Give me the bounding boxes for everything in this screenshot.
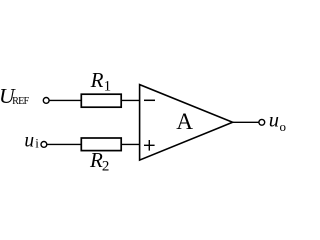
svg-text:REF: REF (12, 96, 29, 107)
node u_i label (24, 131, 39, 152)
node U_REF label (0, 84, 30, 108)
wire op-amp output to u_o terminal (233, 121, 259, 123)
wire u_i terminal to R2 (47, 143, 82, 145)
wire U_REF terminal to R1 (49, 99, 81, 101)
terminal circle u_o (259, 119, 265, 125)
node u_o label (269, 110, 286, 135)
svg-text:R: R (90, 68, 104, 92)
label R1 (90, 68, 112, 95)
label R2 (89, 148, 109, 175)
svg-text:o: o (280, 119, 287, 134)
svg-text:u: u (269, 110, 279, 132)
svg-text:i: i (35, 136, 39, 151)
svg-text:1: 1 (104, 79, 112, 95)
svg-text:R: R (89, 148, 103, 172)
plus sign at non-inverting input (144, 140, 155, 151)
resistor R1 (81, 94, 121, 107)
wire R2 to op-amp non-inverting input (121, 143, 139, 145)
svg-text:A: A (176, 109, 193, 135)
resistor R2 (81, 138, 121, 151)
wire R1 to op-amp inverting input (121, 99, 139, 101)
op-amp A (140, 85, 233, 161)
svg-text:2: 2 (102, 159, 110, 175)
svg-text:u: u (24, 131, 34, 152)
terminal circle U_REF (43, 98, 49, 104)
minus sign at inverting input (144, 99, 155, 101)
terminal circle u_i (41, 142, 47, 148)
